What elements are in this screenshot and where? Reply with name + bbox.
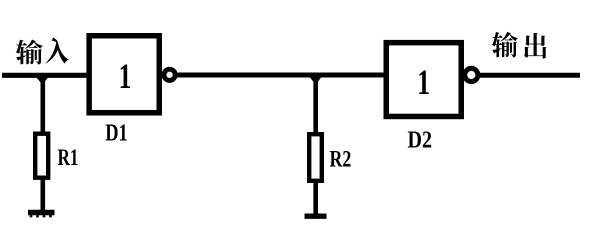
inverter D1 (box) [89, 36, 159, 113]
resistor R1 [35, 134, 48, 178]
inversion bubble D2 [465, 68, 478, 81]
resistor R2 [309, 134, 322, 181]
inverter D2 (box) [386, 43, 461, 117]
svg-text:D2: D2 [408, 127, 433, 154]
wire R2 lower lead [313, 180, 318, 214]
wire output [478, 73, 580, 78]
wire D1 output to D2 input [176, 73, 386, 78]
wire R2 upper lead [313, 75, 318, 134]
inversion bubble D1 [164, 69, 175, 80]
node junction to R2 [310, 77, 322, 85]
wire input [2, 73, 88, 78]
ground (R1) [28, 213, 55, 218]
wire R1 lower lead [40, 177, 45, 211]
svg-text:R2: R2 [330, 146, 352, 172]
label 输出 (output) [492, 32, 547, 59]
svg-text:1: 1 [119, 56, 132, 96]
wire R1 upper lead [40, 75, 45, 134]
svg-text:D1: D1 [105, 119, 128, 146]
node input junction [36, 77, 49, 85]
svg-text:R1: R1 [58, 145, 79, 171]
label 输入 (input) [16, 37, 69, 64]
svg-text:1: 1 [417, 62, 430, 102]
ground (R2) [305, 213, 327, 218]
